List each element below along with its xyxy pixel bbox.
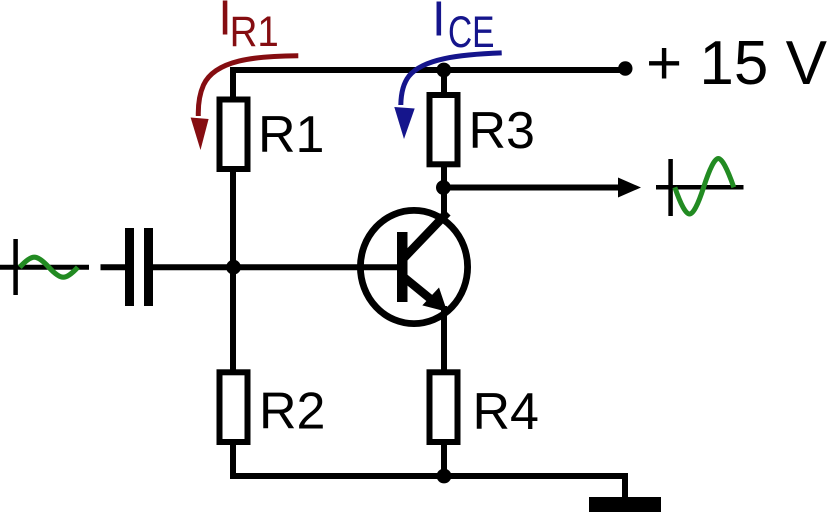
- resistor R1: [220, 100, 248, 170]
- transistor Q1: [360, 210, 467, 323]
- ground: [589, 497, 661, 512]
- wire bottom rail: [230, 473, 628, 479]
- resistor R2: [220, 372, 248, 442]
- current arrow I_R1: [191, 56, 299, 150]
- wire top supply rail: [230, 67, 625, 73]
- svg-text:R4: R4: [473, 383, 539, 441]
- node output junction: [436, 180, 451, 195]
- output waveform terminal: [656, 159, 744, 216]
- svg-text:+ 15 V: + 15 V: [646, 29, 828, 98]
- current arrow I_CE: [394, 53, 501, 139]
- output sine wave: [675, 159, 734, 215]
- label I_R1: [218, 0, 279, 56]
- label I_CE: [432, 0, 495, 57]
- svg-text:R1: R1: [258, 106, 324, 164]
- wire output arrow: [450, 178, 641, 198]
- capacitor C1 wire left: [101, 264, 126, 270]
- resistor R4: [430, 372, 458, 442]
- svg-text:CE: CE: [448, 8, 495, 57]
- node base junction: [226, 260, 241, 275]
- wire emitter vertical branch (R4): [441, 306, 447, 479]
- input sine wave: [20, 257, 78, 277]
- capacitor C1: [125, 228, 153, 306]
- node supply terminal: [618, 61, 632, 75]
- svg-text:R2: R2: [259, 383, 325, 441]
- svg-text:R3: R3: [469, 102, 535, 160]
- wire right vertical branch collector (R3): [441, 67, 447, 216]
- resistor R3: [430, 95, 458, 164]
- wire base (capacitor to transistor): [152, 264, 398, 270]
- wire left vertical branch (R1/R2): [230, 67, 236, 479]
- svg-text:I: I: [432, 0, 446, 47]
- svg-text:R1: R1: [230, 8, 279, 56]
- wire ground drop: [622, 476, 628, 498]
- node collector rail junction: [436, 63, 451, 78]
- node emitter rail junction: [437, 469, 452, 484]
- input source terminal: [0, 239, 89, 295]
